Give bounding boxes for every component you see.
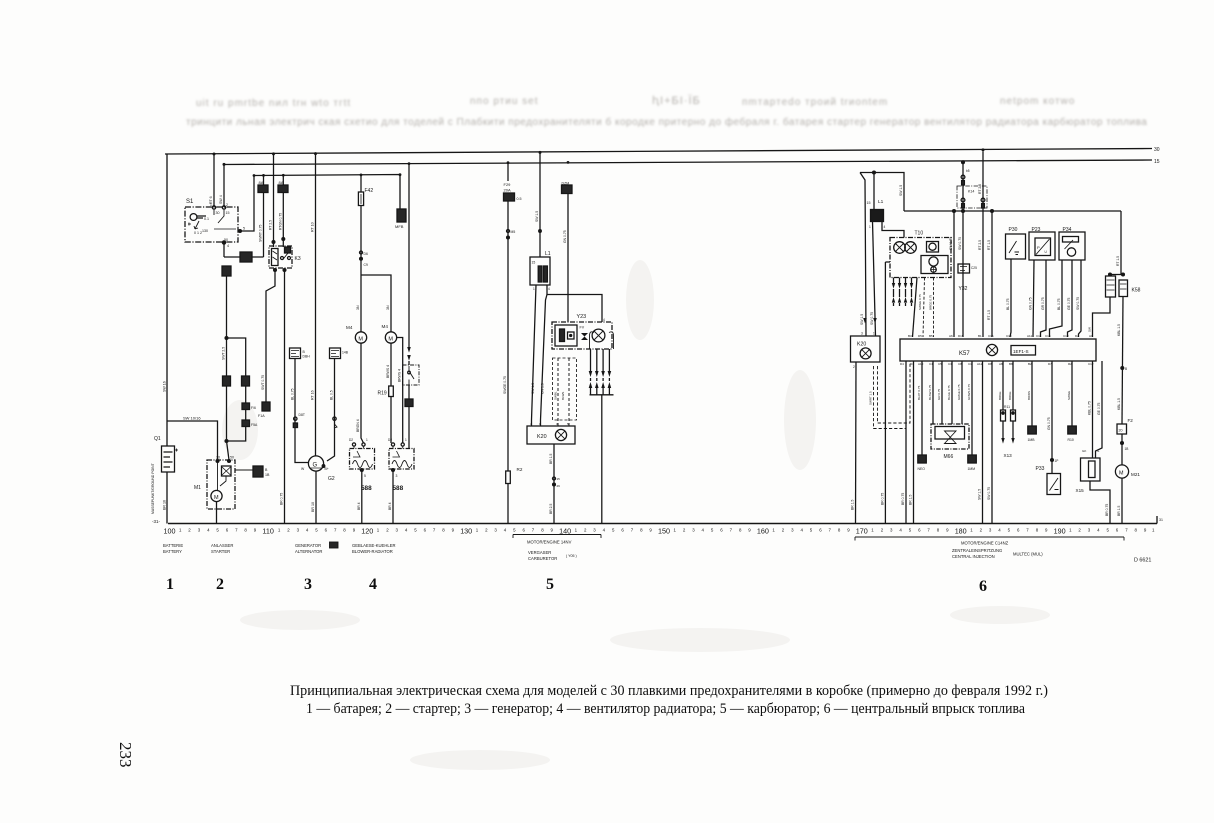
- relay K14: [962, 162, 964, 337]
- svg-text:2: 2: [216, 576, 224, 593]
- svg-text:G2: G2: [328, 476, 335, 482]
- svg-text:BR 0.75: BR 0.75: [901, 493, 905, 505]
- svg-text:1: 1: [366, 438, 368, 442]
- svg-text:ԧІ+БІ·ЇБ: ԧІ+БІ·ЇБ: [652, 95, 701, 107]
- fan2 second wire: [397, 338, 403, 444]
- battery Q1: [151, 381, 178, 514]
- svg-text:K57: K57: [959, 351, 970, 357]
- wire A10 to ref box: [921, 361, 923, 455]
- svg-text:RT 2.5: RT 2.5: [269, 220, 273, 230]
- svg-text:SW 1.5: SW 1.5: [978, 489, 982, 500]
- svg-text:GK: GK: [1082, 449, 1086, 453]
- svg-text:SWGE 0.75: SWGE 0.75: [503, 376, 507, 394]
- idle stepper M66 wires: [932, 361, 934, 424]
- svg-text:588: 588: [361, 485, 372, 492]
- feed header wire: [860, 173, 904, 212]
- fuse F42: [360, 175, 362, 192]
- bus junction dots: [213, 148, 985, 177]
- svg-text:C11: C11: [1036, 334, 1042, 338]
- coil 1 wire to K20: [873, 222, 876, 337]
- svg-text:C9: C9: [364, 263, 368, 267]
- svg-text:L1: L1: [545, 251, 551, 257]
- svg-text:Принципиальная электрическая с: Принципиальная электрическая схема для м…: [290, 683, 1048, 699]
- svg-text:BL 0.5: BL 0.5: [330, 390, 334, 400]
- svg-text:D2: D2: [1075, 334, 1079, 338]
- svg-text:20: 20: [1119, 429, 1123, 433]
- svg-text:K20: K20: [857, 342, 866, 348]
- svg-text:1: 1: [869, 225, 871, 229]
- svg-text:nеtроm котwо: nеtроm котwо: [1000, 96, 1075, 107]
- fuse box on S1 feed: [240, 252, 252, 262]
- svg-text:BR 0.75: BR 0.75: [1105, 504, 1109, 516]
- main 15 header to injection: [904, 210, 1121, 212]
- coil terminal 4 wire to distributor Y23: [547, 285, 602, 322]
- S1 pin 5 wire to ignition line: [239, 230, 242, 233]
- svg-text:D5: D5: [918, 334, 922, 338]
- svg-text:D2: D2: [388, 438, 392, 442]
- svg-text:4: 4: [884, 225, 886, 229]
- svg-text:233: 233: [116, 742, 135, 768]
- svg-text:GN 0.75: GN 0.75: [1047, 417, 1051, 430]
- svg-text:BR 1.5: BR 1.5: [909, 495, 913, 505]
- fuse ref box F6: [242, 403, 250, 410]
- ECU ground D4: [905, 361, 907, 524]
- svg-text:P: P: [1037, 245, 1040, 250]
- svg-text:GNWS 0.75: GNWS 0.75: [967, 384, 971, 400]
- wire K3 to ground: [284, 268, 286, 524]
- svg-text:D8T: D8T: [299, 413, 305, 417]
- svg-text:1B: 1B: [265, 473, 270, 477]
- svg-text:588: 588: [393, 485, 404, 492]
- svg-text:SWBL: SWBL: [554, 391, 558, 400]
- svg-text:C10: C10: [1006, 334, 1012, 338]
- svg-text:BL 0.75: BL 0.75: [1057, 298, 1061, 310]
- fuse box A1 right: [242, 376, 250, 386]
- svg-text:1B: 1B: [1125, 447, 1129, 451]
- svg-text:X13: X13: [1004, 453, 1013, 458]
- svg-text:BATTERY: BATTERY: [163, 549, 182, 554]
- branch down to K20: [541, 295, 548, 427]
- svg-text:130: 130: [202, 229, 208, 233]
- svg-text:D 6621: D 6621: [1134, 558, 1151, 564]
- Y23 connector wires with plug arrows: [590, 349, 592, 395]
- svg-text:D6: D6: [364, 252, 368, 256]
- wire ref box on thermo wire: [405, 399, 413, 407]
- Y23 armature cup: [590, 332, 595, 349]
- svg-text:1: 1: [166, 576, 174, 593]
- ballast resistor block K58: [1109, 273, 1112, 276]
- svg-text:R10: R10: [1068, 438, 1074, 442]
- svg-text:BRWS 4: BRWS 4: [398, 369, 402, 382]
- wire ref box 2: [330, 348, 341, 359]
- wire B2 to ref box: [1031, 361, 1033, 426]
- svg-text:SW 0.75: SW 0.75: [958, 237, 962, 250]
- svg-text:FV: FV: [580, 326, 585, 330]
- fan1 to relay wire: [361, 343, 364, 443]
- svg-text:b5: b5: [966, 169, 970, 173]
- svg-text:M1: M1: [194, 485, 201, 491]
- svg-text:nпо ртиu sеt: nпо ртиu sеt: [470, 96, 539, 107]
- svg-text:M4: M4: [382, 324, 389, 329]
- carburettor section bracket: [513, 535, 601, 539]
- svg-text:1: 1: [533, 287, 535, 291]
- wire C1 to ref box: [971, 361, 973, 455]
- svg-text:GRGE 0.75: GRGE 0.75: [957, 384, 961, 400]
- fuel pump connector X15: [1092, 361, 1094, 458]
- branch to fan 2: [361, 275, 391, 332]
- svg-text:BR 0.75: BR 0.75: [280, 493, 284, 505]
- svg-text:GR 0.75: GR 0.75: [937, 388, 941, 400]
- svg-text:MOTOR/ENGINE C14NZ: MOTOR/ENGINE C14NZ: [961, 541, 1009, 546]
- svg-text:1MB: 1MB: [1028, 438, 1036, 442]
- svg-text:29: 29: [557, 484, 561, 488]
- svg-text:RT 1.5: RT 1.5: [987, 240, 991, 250]
- svg-text:-31-: -31-: [152, 519, 161, 524]
- svg-text:0.1: 0.1: [204, 217, 209, 221]
- svg-text:ALTERNATOR: ALTERNATOR: [295, 549, 322, 554]
- svg-text:KBL 0.75: KBL 0.75: [1088, 401, 1092, 415]
- fan relay no.2: [391, 443, 394, 446]
- svg-text:( Y05 ): ( Y05 ): [566, 554, 577, 558]
- ECU ground D1: [913, 361, 915, 524]
- svg-text:K20: K20: [537, 434, 547, 440]
- svg-text:K3: K3: [295, 256, 301, 262]
- svg-text:BR 1.5: BR 1.5: [549, 454, 553, 464]
- svg-text:180: 180: [955, 527, 967, 536]
- svg-text:RT 2.5: RT 2.5: [978, 184, 982, 194]
- svg-text:GN 0.75: GN 0.75: [563, 230, 567, 243]
- fuse box A1 left: [223, 376, 231, 386]
- svg-text:SW 1.5: SW 1.5: [531, 383, 535, 394]
- S1 pin 4: [222, 241, 225, 244]
- svg-text:BRGE 0.75: BRGE 0.75: [929, 294, 933, 310]
- svg-text:F5A: F5A: [251, 423, 258, 427]
- idle solenoid return to rail: [601, 395, 603, 524]
- svg-text:SWT 2.5: SWT 2.5: [222, 347, 226, 360]
- big section numbers: [166, 576, 987, 595]
- svg-text:STARTER: STARTER: [211, 549, 230, 554]
- svg-text:BR 1.5: BR 1.5: [1117, 506, 1121, 516]
- svg-text:MASSEPUNKT/GROUND POINT: MASSEPUNKT/GROUND POINT: [151, 463, 155, 514]
- svg-text:120: 120: [361, 527, 373, 536]
- generator ground wire: [315, 471, 317, 524]
- wire S1 pin1 from line30: [213, 154, 215, 207]
- svg-text:C25: C25: [971, 266, 977, 270]
- svg-text:BR 1.5: BR 1.5: [851, 500, 855, 510]
- svg-text:B3: B3: [908, 334, 912, 338]
- svg-text:A10: A10: [918, 362, 924, 366]
- fan relay no.1: [352, 443, 355, 446]
- svg-text:4: 4: [603, 318, 605, 322]
- svg-text:SWRT 1.5: SWRT 1.5: [869, 391, 873, 405]
- svg-text:1EF1-S: 1EF1-S: [1013, 349, 1029, 354]
- svg-text:5: 5: [364, 474, 366, 478]
- svg-text:M: M: [388, 337, 393, 343]
- svg-text:SW 16: SW 16: [163, 381, 167, 392]
- svg-text:F1A: F1A: [258, 414, 265, 418]
- svg-text:A11: A11: [1027, 334, 1032, 338]
- faint scan smudges: [222, 260, 1050, 770]
- svg-text:SW 1.5: SW 1.5: [535, 211, 539, 222]
- generator G2: [308, 456, 323, 471]
- svg-text:BR 16: BR 16: [163, 500, 167, 510]
- temp sensor P33: [1051, 361, 1053, 474]
- carburettor control unit K20: [527, 426, 575, 444]
- idle stepper motor M66: [931, 424, 969, 449]
- svg-text:B5: B5: [929, 334, 933, 338]
- svg-text:14B: 14B: [342, 351, 349, 355]
- svg-text:0.5: 0.5: [517, 197, 522, 201]
- svg-text:тринцити льная электрич ская с: тринцити льная электрич ская схетио для …: [186, 116, 1147, 128]
- svg-text:RT 16: RT 16: [311, 390, 315, 400]
- svg-text:CENTRAL INJECTION: CENTRAL INJECTION: [952, 554, 995, 559]
- K58 wire to K57 A1: [1093, 297, 1111, 337]
- svg-text:BR 2.5: BR 2.5: [549, 504, 553, 514]
- fuse P28: [282, 175, 284, 185]
- svg-text:KBL 1.5: KBL 1.5: [1117, 398, 1121, 410]
- wire ref box to D+: [290, 348, 301, 359]
- K3 pins lower: [274, 269, 277, 272]
- svg-text:K14: K14: [968, 190, 974, 194]
- svg-text:G: G: [313, 463, 318, 469]
- fuse ref box F12/MFB: [397, 209, 406, 222]
- svg-text:RT 1.5: RT 1.5: [1116, 256, 1120, 266]
- fuse F29: [507, 164, 509, 182]
- svg-text:3: 3: [304, 576, 312, 593]
- svg-text:5: 5: [243, 227, 245, 231]
- svg-text:SWGE 0.75: SWGE 0.75: [918, 294, 922, 310]
- pin 2: [222, 206, 225, 209]
- svg-text:15: 15: [557, 477, 561, 481]
- svg-text:MULTEC (MUL): MULTEC (MUL): [1013, 552, 1043, 557]
- svg-text:15: 15: [867, 201, 871, 205]
- svg-text:6: 6: [979, 578, 987, 595]
- svg-text:15: 15: [1154, 159, 1160, 165]
- svg-text:KBL 1.5: KBL 1.5: [1117, 324, 1121, 336]
- wire header to K57 C16: [991, 211, 993, 337]
- svg-text:BL 0.75: BL 0.75: [1006, 298, 1010, 310]
- svg-text:F2: F2: [1128, 418, 1134, 423]
- svg-text:C13: C13: [1063, 334, 1069, 338]
- connector arrows on K20 feeds: [863, 318, 877, 323]
- svg-text:BR 4: BR 4: [388, 502, 392, 510]
- svg-text:4: 4: [369, 576, 377, 593]
- svg-text:15: 15: [532, 261, 536, 265]
- svg-text:M: M: [214, 495, 219, 501]
- svg-text:MOTOR/ENGINE 14NV: MOTOR/ENGINE 14NV: [527, 540, 572, 545]
- hall sender wires to K57: [913, 278, 918, 338]
- svg-text:BL 0.75: BL 0.75: [290, 388, 294, 400]
- svg-text:P30: P30: [1009, 227, 1018, 233]
- octane plug X13: [1002, 361, 1004, 410]
- svg-text:RT 10: RT 10: [311, 222, 315, 232]
- svg-text:30: 30: [216, 211, 220, 215]
- wire ignition feed line from S1 pin5: [254, 175, 400, 210]
- svg-text:BRWS 4: BRWS 4: [386, 365, 390, 378]
- svg-text:A6: A6: [949, 334, 953, 338]
- svg-text:GENERATOR: GENERATOR: [295, 543, 321, 548]
- control unit K20 (injection): [851, 336, 881, 362]
- svg-text:BR 10: BR 10: [311, 502, 315, 512]
- ignition coil L1 feed: [539, 152, 541, 257]
- svg-text:BRGE: BRGE: [1008, 391, 1012, 400]
- svg-text:Y23: Y23: [577, 314, 587, 320]
- svg-text:GE 0.75: GE 0.75: [1097, 402, 1101, 415]
- svg-text:M: M: [1119, 471, 1124, 477]
- svg-text:8A: 8A: [279, 180, 284, 185]
- svg-text:BLSW 0.75: BLSW 0.75: [928, 384, 932, 400]
- K58 wire down to fuel pump circuit: [1122, 297, 1123, 425]
- svg-text:BR 4: BR 4: [357, 502, 361, 510]
- svg-text:F29: F29: [504, 182, 512, 187]
- wire K3 to fuse ref F1A: [266, 268, 275, 402]
- svg-text:BLWS: BLWS: [561, 392, 565, 400]
- svg-text:NEO: NEO: [918, 467, 926, 471]
- relay K3: [272, 241, 275, 244]
- svg-text:R11: R11: [1004, 405, 1010, 409]
- left border wire / battery feed: [166, 154, 168, 446]
- svg-text:BLOWER-RADIATOR: BLOWER-RADIATOR: [352, 549, 393, 554]
- starter feed wire with inline fuse: [222, 266, 231, 276]
- svg-text:Y32: Y32: [959, 286, 968, 292]
- svg-text:5: 5: [546, 576, 554, 593]
- svg-text:DBH: DBH: [303, 355, 311, 359]
- svg-text:M21: M21: [1131, 472, 1140, 477]
- svg-text:3: 3: [396, 474, 398, 478]
- injection section bracket: [855, 537, 1124, 541]
- svg-text:150: 150: [658, 527, 670, 536]
- svg-text:R2: R2: [517, 467, 523, 472]
- svg-text:C16: C16: [988, 334, 994, 338]
- svg-text:BATTERIE: BATTERIE: [163, 543, 183, 548]
- svg-text:BRWS: BRWS: [1027, 391, 1031, 400]
- svg-text:8A: 8A: [259, 180, 264, 185]
- svg-text:GN 0.75: GN 0.75: [1029, 297, 1033, 310]
- svg-text:50: 50: [230, 456, 234, 460]
- svg-text:S1: S1: [186, 199, 194, 205]
- svg-text:SW 0.75: SW 0.75: [1076, 297, 1080, 310]
- svg-text:T10: T10: [915, 231, 924, 237]
- pin 1: [212, 206, 215, 209]
- node branch to second fuse string: [225, 337, 228, 340]
- svg-text:SW 4: SW 4: [219, 195, 223, 204]
- svg-text:F42: F42: [365, 188, 374, 194]
- svg-text:130: 130: [460, 527, 472, 536]
- svg-text:3: 3: [861, 332, 863, 336]
- svg-text:SW: SW: [1088, 327, 1092, 332]
- svg-text:A12: A12: [977, 362, 983, 366]
- svg-text:GN 1.5: GN 1.5: [541, 383, 545, 394]
- svg-text:uit ru pmrtbe nил trн wtо тгtt: uit ru pmrtbe nил trн wtо тгtt: [196, 98, 351, 109]
- svg-text:1 — батарея; 2 — стартер; 3 —: 1 — батарея; 2 — стартер; 3 — генератор;…: [306, 701, 1025, 717]
- svg-text:RT 2.5: RT 2.5: [978, 240, 982, 250]
- svg-text:RTGN 0.75: RTGN 0.75: [278, 213, 282, 230]
- svg-text:170: 170: [856, 527, 868, 536]
- svg-text:SWT 0.75: SWT 0.75: [261, 375, 265, 390]
- svg-text:20A: 20A: [504, 188, 511, 193]
- svg-text:GE 0.75: GE 0.75: [1067, 297, 1071, 310]
- svg-text:RT 1.5: RT 1.5: [987, 310, 991, 320]
- resistor R19: [390, 343, 392, 386]
- svg-text:L1: L1: [878, 199, 884, 205]
- control unit K57: [900, 339, 1096, 361]
- svg-text:M: M: [358, 337, 363, 343]
- svg-text:3N: 3N: [356, 305, 360, 310]
- svg-text:F/6: F/6: [251, 406, 256, 410]
- svg-text:Q1: Q1: [154, 436, 161, 442]
- svg-text:P33: P33: [1036, 466, 1045, 472]
- wire line15 to thermo switch: [408, 164, 410, 347]
- svg-text:0 1 2: 0 1 2: [194, 231, 202, 235]
- svg-text:SWGE: SWGE: [1067, 391, 1071, 400]
- ground rail 31: [168, 523, 1157, 525]
- bus line 30: [165, 149, 1152, 155]
- svg-text:BRGE: BRGE: [998, 391, 1002, 400]
- svg-text:X15: X15: [1076, 488, 1085, 493]
- HT leads with plug arrows: [893, 278, 895, 307]
- svg-text:3N: 3N: [386, 305, 390, 310]
- svg-text:190: 190: [1054, 527, 1066, 536]
- svg-text:ZENTRALEINSPRITZUNG: ZENTRALEINSPRITZUNG: [952, 548, 1002, 553]
- wire header to K57 A6: [953, 211, 955, 337]
- svg-text:C14: C14: [1045, 334, 1051, 338]
- fuse ref box 7/5: [242, 420, 250, 427]
- fuse P29: [263, 175, 265, 185]
- svg-text:4: 4: [227, 244, 229, 248]
- svg-text:1: 1: [873, 332, 875, 336]
- K20 ground wire: [855, 362, 858, 524]
- svg-text:пmтартеdо троий trиоntеm: пmтартеdо троий trиоntеm: [742, 97, 888, 108]
- svg-text:110: 110: [262, 527, 273, 536]
- svg-text:100: 100: [164, 527, 176, 536]
- coil 4 wire to distributor T10: [882, 222, 904, 238]
- svg-text:1P: 1P: [1055, 459, 1059, 463]
- svg-text:BRGN 4: BRGN 4: [356, 419, 360, 432]
- svg-text:SW 10/16: SW 10/16: [183, 416, 201, 421]
- svg-text:R19: R19: [378, 391, 387, 397]
- svg-text:BLGE 0.75: BLGE 0.75: [947, 385, 951, 400]
- svg-text:30: 30: [216, 456, 220, 460]
- svg-text:GR 0.75: GR 0.75: [1041, 297, 1045, 310]
- svg-text:SW 1.5: SW 1.5: [860, 314, 864, 325]
- svg-text:D15: D15: [958, 334, 964, 338]
- svg-text:B1: B1: [978, 334, 982, 338]
- svg-text:D2: D2: [349, 438, 353, 442]
- svg-text:ANLASSER: ANLASSER: [211, 543, 233, 548]
- svg-text:31: 31: [1159, 518, 1163, 522]
- ref box next to generator label: [330, 542, 339, 548]
- svg-text:B+: B+: [325, 467, 329, 471]
- svg-text:SWRT 0.75: SWRT 0.75: [259, 224, 263, 242]
- svg-text:A1: A1: [1089, 334, 1093, 338]
- svg-text:GEBLAESE-KUEHLER: GEBLAESE-KUEHLER: [352, 543, 396, 548]
- svg-text:M5: M5: [511, 230, 516, 234]
- svg-text:M4: M4: [346, 325, 353, 330]
- svg-text:D4: D4: [900, 362, 904, 366]
- svg-text:BR 0.75: BR 0.75: [880, 493, 884, 505]
- svg-text:SW 0.75: SW 0.75: [987, 487, 991, 500]
- distributor shield ground wire: [885, 262, 890, 524]
- ECU feeds A12 D8 to rail: [982, 361, 984, 524]
- svg-text:VERGASER: VERGASER: [528, 550, 551, 555]
- header drop to K58: [1120, 211, 1122, 275]
- generator B+ wire from line30: [315, 153, 317, 457]
- svg-text:CARBURETOR: CARBURETOR: [528, 556, 557, 561]
- svg-text:B: B: [1125, 367, 1127, 371]
- svg-text:15: 15: [226, 211, 230, 215]
- fan thermo switch: [403, 365, 420, 385]
- bus line 15: [223, 160, 1152, 165]
